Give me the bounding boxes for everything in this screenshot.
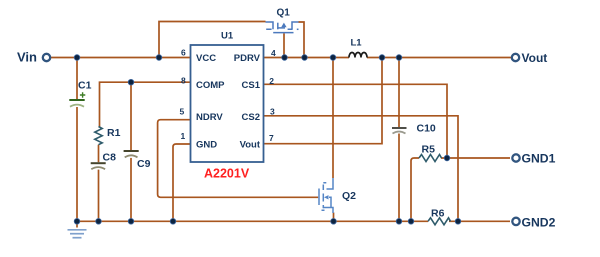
svg-text:C9: C9 <box>137 158 151 170</box>
svg-text:Vin: Vin <box>17 50 37 65</box>
wire CS1 pin2 to R5 node <box>264 84 448 158</box>
node GND1 terminal <box>512 154 519 161</box>
wire L1 to Vout terminal <box>367 57 511 59</box>
wire C1 to ground bus <box>76 107 78 221</box>
wire R1 to C8 <box>98 145 100 163</box>
wire R5 node to GND1 terminal <box>441 157 510 159</box>
wire top rail from Vin riser to Q1 <box>159 22 266 58</box>
wire C10 bottom branch <box>398 134 400 222</box>
capacitor C1 polarized <box>69 99 84 101</box>
wire C9 bottom branch <box>130 158 132 221</box>
wire GND pin1 drop <box>173 144 191 221</box>
svg-text:7: 7 <box>269 133 274 143</box>
capacitor C9 <box>124 150 139 152</box>
wire Q1 source to switch node <box>299 22 305 58</box>
wire Q1 gate drop <box>283 33 285 57</box>
svg-text:8: 8 <box>181 76 186 86</box>
wire R5 left leg to bus <box>411 158 419 221</box>
svg-text:3: 3 <box>270 106 275 116</box>
svg-text:R6: R6 <box>431 208 445 220</box>
svg-text:C8: C8 <box>103 151 117 163</box>
wire CS2 pin3 to R6 node <box>264 116 459 222</box>
transistor Q1 <box>266 22 299 33</box>
wire Vin line y=57.5 <box>51 57 191 59</box>
svg-text:PDRV: PDRV <box>234 53 261 64</box>
wire C9 top branch <box>130 82 132 150</box>
wire COMP pin8 to R1/C9 <box>100 82 191 126</box>
wire ground bus <box>77 220 428 222</box>
svg-text:6: 6 <box>181 48 186 58</box>
wire Q2 source drop <box>333 213 335 222</box>
resistor R6 <box>428 218 451 225</box>
svg-text:VCC: VCC <box>196 53 216 64</box>
svg-text:5: 5 <box>180 106 185 116</box>
wire C8 to ground bus <box>98 170 100 222</box>
svg-text:Q1: Q1 <box>277 7 291 18</box>
inductor L1 <box>349 53 367 58</box>
svg-text:GND1: GND1 <box>522 151 556 165</box>
svg-text:GND: GND <box>196 139 217 150</box>
capacitor C8 <box>91 162 106 164</box>
svg-text:CS1: CS1 <box>242 80 261 91</box>
capacitor C10 <box>392 127 407 129</box>
wire PDRV stub and switch node rail to L1 <box>264 57 350 59</box>
C1 plus sign <box>80 92 85 97</box>
svg-text:CS2: CS2 <box>242 112 260 123</box>
svg-text:NDRV: NDRV <box>196 112 223 123</box>
wire pin7 feedback riser <box>264 58 383 144</box>
svg-text:4: 4 <box>271 48 276 58</box>
svg-text:C1: C1 <box>78 80 92 92</box>
resistor R1 <box>95 127 102 145</box>
svg-text:U1: U1 <box>221 30 234 41</box>
svg-text:R5: R5 <box>422 143 436 155</box>
svg-text:L1: L1 <box>351 37 363 48</box>
wire C1 branch <box>76 58 78 100</box>
svg-text:GND2: GND2 <box>522 216 556 230</box>
transistor Q2 <box>319 178 333 213</box>
svg-text:Vout: Vout <box>240 139 261 150</box>
node Vin terminal <box>43 54 50 61</box>
svg-text:C10: C10 <box>417 123 436 135</box>
svg-text:Q2: Q2 <box>342 190 356 202</box>
ground <box>76 221 78 227</box>
op-amp U1 IC body <box>191 45 264 162</box>
svg-text:R1: R1 <box>107 127 121 139</box>
wire C10 top branch <box>398 58 400 128</box>
node Vout terminal <box>512 54 519 61</box>
svg-text:A2201V: A2201V <box>204 167 250 181</box>
svg-text:2: 2 <box>269 76 274 86</box>
svg-text:COMP: COMP <box>196 80 225 91</box>
svg-text:1: 1 <box>181 131 186 141</box>
wire Q2 drain drop <box>332 58 334 179</box>
wire NDRV pin5 to Q2 gate <box>158 120 319 198</box>
svg-text:Vout: Vout <box>522 51 548 65</box>
wire R6 to GND2 terminal <box>449 220 510 222</box>
node GND2 terminal <box>512 218 519 225</box>
resistor R5 <box>419 155 442 162</box>
